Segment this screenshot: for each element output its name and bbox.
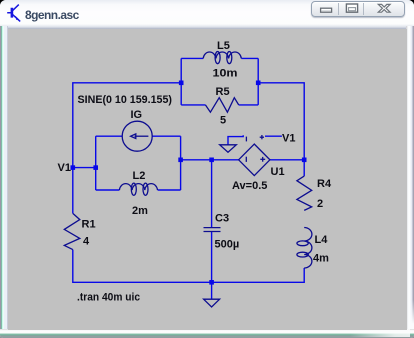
node U1 out: [302, 158, 307, 163]
right window border: [406, 26, 414, 330]
close button icon: [378, 4, 390, 12]
bottom window border: [0, 329, 414, 338]
node L5 right: [256, 81, 261, 86]
svg-text:4m: 4m: [313, 253, 329, 265]
capacitor C3: [204, 227, 221, 229]
resistor R4: [297, 176, 312, 210]
wire U1 ctrl minus: [228, 135, 243, 144]
node V1 left: [71, 165, 76, 170]
minimize button icon: [321, 8, 332, 12]
svg-text:500µ: 500µ: [215, 239, 240, 251]
svg-text:U1: U1: [271, 166, 285, 178]
ground main: [204, 299, 220, 307]
ground U1 ctrl: [220, 145, 237, 152]
junction nodes: [71, 81, 307, 285]
svg-text:R1: R1: [82, 219, 96, 231]
svg-text:R4: R4: [317, 178, 332, 190]
svg-text:2m: 2m: [132, 205, 148, 217]
wire L5/R5 right vertical: [257, 58, 259, 105]
node L5 left: [179, 81, 184, 86]
inductor L5: [203, 52, 241, 64]
wire R5 leads: [181, 104, 205, 106]
node C3 top: [209, 158, 214, 163]
svg-text:IG: IG: [131, 109, 143, 121]
U1 ctrl plus pin mark: [260, 136, 264, 138]
U1 minus mark: [245, 157, 247, 162]
resistor R1: [64, 213, 80, 249]
svg-text:Av=0.5: Av=0.5: [232, 180, 267, 192]
op... U1 VCVS diamond: [239, 144, 270, 176]
svg-text:C3: C3: [215, 213, 229, 225]
svg-text:2: 2: [317, 198, 323, 210]
node gnd: [209, 280, 214, 285]
title text: [25, 8, 79, 22]
inductor L2: [119, 183, 157, 195]
wire IG/L2 right vertical: [180, 136, 182, 190]
node IG/L2 left: [93, 165, 98, 170]
left window border: [0, 26, 8, 330]
svg-text:L5: L5: [217, 40, 230, 52]
wire L2 branch: [96, 189, 120, 191]
svg-text:SINE(0 10 159.155): SINE(0 10 159.155): [78, 94, 173, 106]
wire mid rail: [181, 159, 239, 161]
maximize button icon: [346, 4, 357, 12]
resistor R5: [205, 98, 238, 113]
U1 ctrl minus pin tick: [245, 137, 247, 142]
svg-text:.tran 40m uic: .tran 40m uic: [77, 292, 140, 304]
wire bottom rail: [73, 250, 304, 283]
svg-text:L2: L2: [133, 170, 146, 182]
wire V1 stub: [73, 167, 96, 169]
wire C3 leads: [211, 160, 213, 228]
window icon: LTspice transistor glyph: [0, 0, 28, 28]
wire L5/R5 left vertical: [180, 58, 182, 105]
IG arrow: [135, 135, 149, 137]
wire top rail right: [258, 83, 304, 176]
svg-text:R5: R5: [216, 86, 230, 98]
caption buttons pill: [311, 1, 405, 17]
svg-text:L4: L4: [315, 234, 329, 246]
title bar gradient: [0, 0, 414, 30]
wire IG/L2 left vertical: [95, 136, 97, 190]
wire U1 ctrl plus to V1: [265, 135, 282, 137]
svg-text:5: 5: [220, 115, 226, 127]
inductor L4: [297, 228, 312, 269]
svg-text:4: 4: [83, 236, 90, 248]
svg-text:10m: 10m: [213, 68, 238, 80]
current source IG circle: [122, 121, 152, 151]
wire top rail left: [73, 83, 181, 214]
wire IG branch: [96, 135, 123, 137]
svg-text:V1: V1: [58, 162, 71, 174]
wire ground stub: [211, 282, 213, 299]
node mid left: [178, 158, 183, 163]
wire L5 leads: [181, 57, 203, 59]
svg-text:V1: V1: [282, 133, 295, 145]
U1 plus mark: [260, 158, 265, 160]
